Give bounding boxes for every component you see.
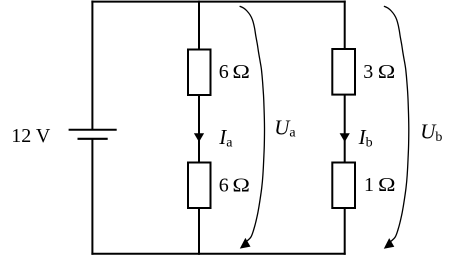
wire middle branch upper (198, 1, 200, 50)
wire middle branch mid with current arrow (198, 95, 200, 163)
current arrow Ib head (340, 133, 350, 142)
wire right branch mid with current arrow (344, 95, 346, 163)
svg-text:Ub: Ub (420, 120, 442, 145)
voltage arc Ua arrowhead (240, 238, 251, 249)
resistor 3ohm box (332, 49, 355, 95)
voltage arc Ua (240, 6, 265, 241)
wire top horizontal (91, 1, 345, 3)
svg-text:1: 1 (364, 174, 374, 196)
svg-text:Ω: Ω (378, 61, 396, 83)
voltage arc Ub arrowhead (384, 238, 395, 249)
svg-text:Ua: Ua (274, 115, 296, 140)
resistor 6ohm lower box (188, 163, 211, 209)
battery V1 short plate (78, 138, 108, 140)
resistor 1ohm box (332, 163, 355, 209)
svg-text:12 V: 12 V (11, 125, 51, 147)
svg-text:Ω: Ω (232, 174, 250, 196)
svg-text:Ib: Ib (358, 125, 373, 150)
voltage arc Ub (384, 6, 409, 241)
svg-text:Ω: Ω (378, 174, 396, 196)
wire middle branch lower (198, 208, 200, 255)
wire right branch upper (344, 1, 346, 50)
resistor 6ohm upper box (188, 50, 211, 96)
wire left vertical lower (battery to bottom) (91, 139, 93, 255)
svg-text:3: 3 (363, 61, 373, 83)
battery V1 long plate (69, 129, 117, 131)
wire left vertical upper (top to battery) (91, 1, 93, 130)
wire bottom horizontal (91, 253, 345, 255)
svg-text:6: 6 (219, 174, 229, 196)
wire right branch lower (344, 208, 346, 255)
svg-text:6: 6 (219, 61, 229, 83)
svg-text:Ia: Ia (218, 125, 233, 150)
svg-text:Ω: Ω (232, 61, 250, 83)
current arrow Ia head (194, 133, 204, 142)
